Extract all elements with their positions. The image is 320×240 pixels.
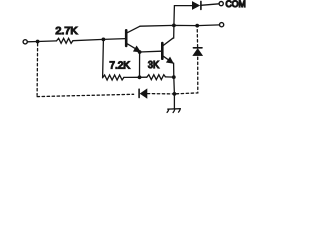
- wire node to 3K: [140, 76, 147, 78]
- wire dashed zener to rail: [196, 27, 198, 47]
- wire 2.7K to Q1 base: [73, 39, 125, 41]
- diode bottom (pointing left): [139, 89, 147, 98]
- wire riser to top rail: [174, 6, 192, 26]
- node emitter-3K junction: [172, 75, 176, 79]
- ground: [167, 109, 180, 113]
- wire input to 2.7K: [27, 40, 56, 43]
- node input junction: [36, 40, 40, 44]
- wire dashed ground node to corner and up: [176, 56, 198, 94]
- svg-text:3K: 3K: [148, 60, 159, 71]
- wire diode to COM terminal: [201, 4, 219, 6]
- node resistor junction: [138, 75, 142, 79]
- node bottom dashed junction: [173, 92, 177, 96]
- wire collector rail: [140, 25, 220, 26]
- wire dashed bottom run: [37, 94, 134, 96]
- COM terminal open circle: [219, 2, 223, 6]
- node base junction: [102, 38, 106, 42]
- diode zener clamp (pointing up): [193, 48, 203, 56]
- node Q1 emitter junction: [138, 50, 142, 54]
- wire 3K to emitter line: [165, 76, 173, 78]
- resistor 2.7K: [57, 38, 73, 43]
- wire Q2 collector riser: [173, 26, 174, 38]
- wire Q1 emitter to Q2 base: [140, 50, 162, 53]
- wire dashed diode to ground node: [147, 93, 172, 95]
- transistor Q2: [162, 38, 173, 63]
- wire vertical emitter node to resistor node: [139, 53, 141, 78]
- svg-text:7.2K: 7.2K: [109, 60, 130, 71]
- wire dashed input drop: [36, 44, 39, 96]
- diode top (to COM): [192, 1, 201, 9]
- svg-text:2.7K: 2.7K: [55, 26, 77, 37]
- output terminal open circle: [220, 23, 224, 27]
- svg-text:COM: COM: [226, 0, 246, 9]
- node collector rail junction: [172, 24, 176, 28]
- wire Q2 emitter vertical to ground: [173, 63, 175, 109]
- resistor 3K: [147, 75, 166, 80]
- wire vertical to 7.2K: [102, 40, 105, 78]
- node zener tap junction: [195, 24, 199, 28]
- wire 7.2K to node: [124, 76, 140, 78]
- resistor 7.2K: [103, 75, 124, 80]
- input terminal open circle: [23, 40, 27, 44]
- transistor Q1: [126, 26, 140, 52]
